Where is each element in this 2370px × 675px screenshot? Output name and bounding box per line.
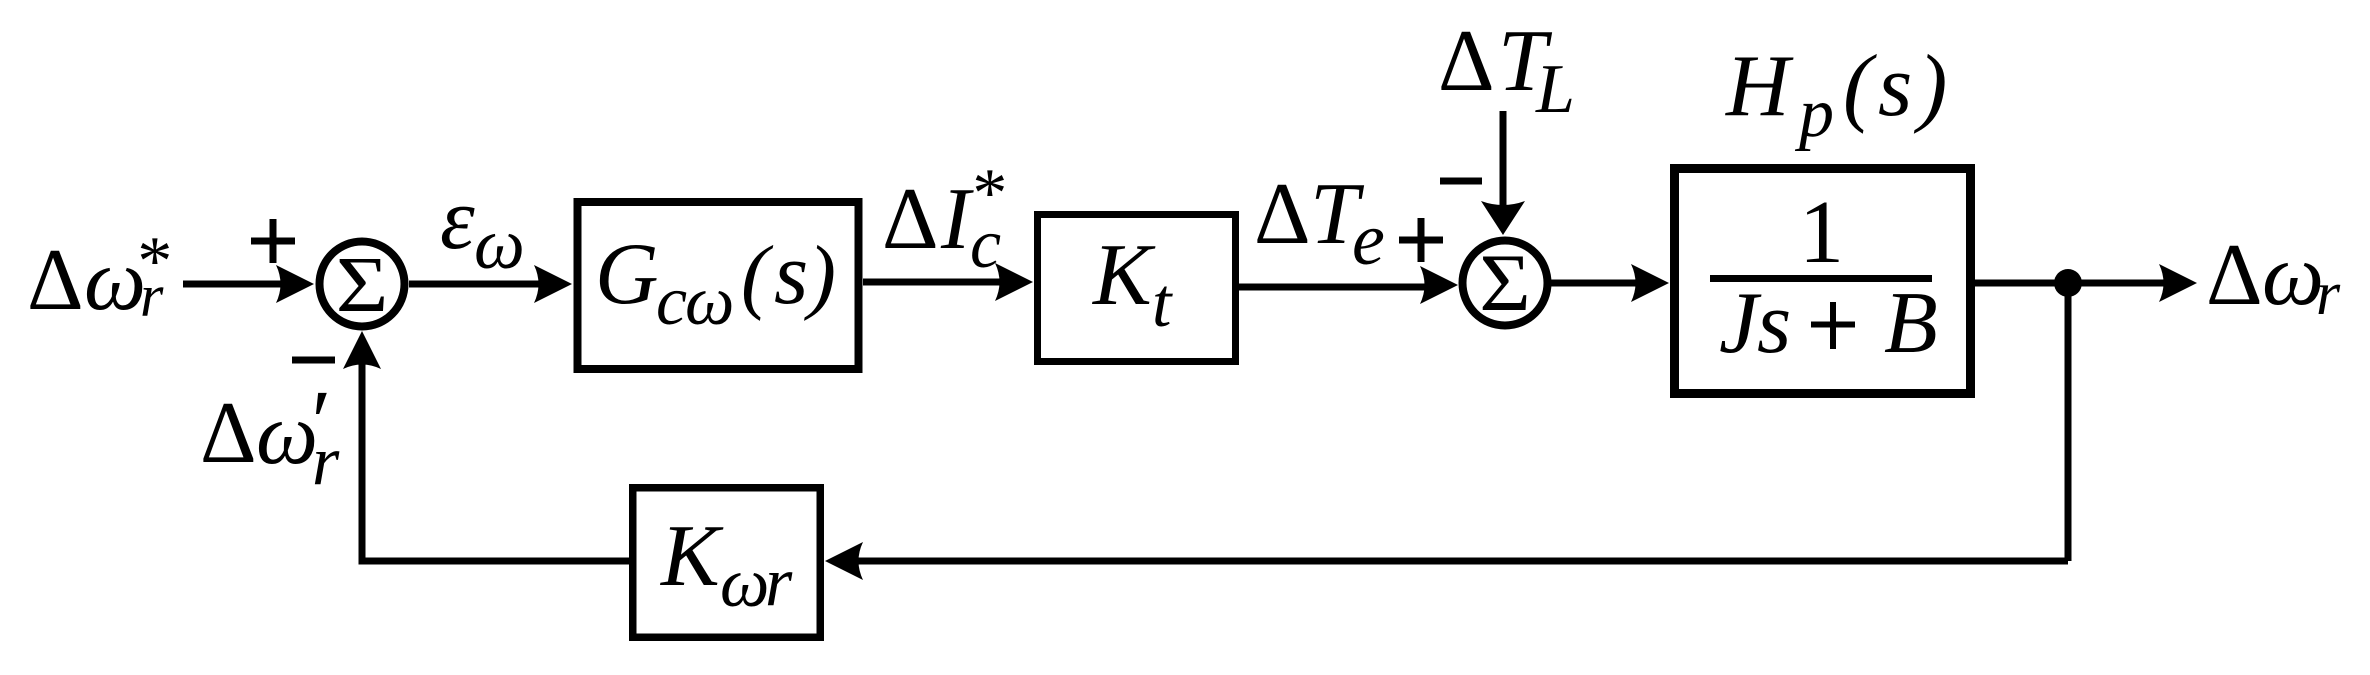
node label ΔTL	[1438, 13, 1575, 128]
svg-text:s: s	[1757, 275, 1791, 372]
svg-text:Δ: Δ	[2206, 227, 2263, 324]
svg-text:G: G	[595, 226, 659, 323]
block Kt	[1038, 215, 1236, 362]
wire Kwr back to S1	[343, 331, 629, 565]
node label output Δωr	[2206, 227, 2341, 328]
svg-text:H: H	[1725, 38, 1794, 135]
svg-text:): )	[804, 229, 836, 322]
svg-text:ω: ω	[2262, 227, 2324, 324]
svg-text:ω: ω	[474, 204, 525, 284]
svg-text:K: K	[1091, 227, 1156, 324]
svg-text:p: p	[1794, 75, 1834, 152]
wire Kt to summing junction S2	[1239, 266, 1458, 304]
svg-text:Δ: Δ	[27, 232, 84, 329]
svg-text:B: B	[1884, 275, 1938, 372]
node label ΔTe	[1254, 166, 1385, 281]
svg-text:r: r	[2316, 260, 2341, 328]
plus sign at S1 input	[251, 219, 295, 263]
wire ΔTL down into S2	[1481, 111, 1525, 235]
svg-text:c: c	[970, 206, 1001, 283]
svg-text:Σ: Σ	[336, 241, 389, 329]
svg-text:e: e	[1352, 199, 1385, 281]
wire node down	[2065, 283, 2072, 561]
plus sign at S2 input	[1399, 218, 1443, 262]
svg-text:t: t	[1152, 265, 1173, 342]
node label input Δω*r	[27, 223, 169, 329]
wire feedback to block Kwr	[825, 542, 2068, 580]
svg-text:1: 1	[1799, 183, 1844, 282]
summing junction S2	[1463, 238, 1548, 328]
svg-text:r: r	[312, 423, 340, 500]
minus sign at S1 bottom input	[292, 357, 335, 364]
svg-text:r: r	[765, 544, 793, 621]
svg-text:Δ: Δ	[1254, 166, 1311, 263]
block Hp transfer function 1/(Js+B)	[1675, 169, 1971, 394]
svg-text:L: L	[1535, 51, 1575, 128]
node junction dot	[2054, 269, 2082, 297]
block label Hp(s)	[1725, 38, 1947, 152]
svg-text:Δ: Δ	[1438, 13, 1495, 110]
node label feedback Δω'r	[200, 373, 340, 500]
svg-text:ω: ω	[720, 545, 769, 622]
svg-text:ω: ω	[685, 263, 734, 340]
minus sign at S2 top input	[1440, 178, 1482, 185]
summing junction S1	[320, 241, 405, 329]
wire Gcw to block Kt	[863, 263, 1033, 301]
wire S1 to block Gcw	[409, 265, 572, 303]
svg-text:s: s	[1878, 38, 1912, 135]
svg-text:r: r	[140, 263, 164, 329]
wire S2 to block Hp	[1551, 264, 1669, 302]
svg-text:Δ: Δ	[882, 171, 939, 268]
block Kwr	[633, 488, 821, 638]
svg-text:J: J	[1719, 275, 1762, 372]
block Gcw(s)	[578, 202, 859, 369]
svg-text:): )	[1913, 38, 1947, 135]
node label ΔI*c	[882, 155, 1004, 283]
node label εω	[440, 171, 525, 284]
svg-text:ε: ε	[440, 171, 475, 268]
wire Hp to output with node	[1975, 264, 2197, 302]
svg-text:s: s	[774, 226, 808, 323]
svg-text:K: K	[659, 508, 724, 605]
svg-text:Δ: Δ	[200, 385, 257, 482]
svg-text:(: (	[1843, 38, 1877, 135]
svg-text:Σ: Σ	[1479, 238, 1531, 328]
svg-text:c: c	[656, 263, 687, 340]
wire input to summing junction S1	[183, 265, 314, 303]
